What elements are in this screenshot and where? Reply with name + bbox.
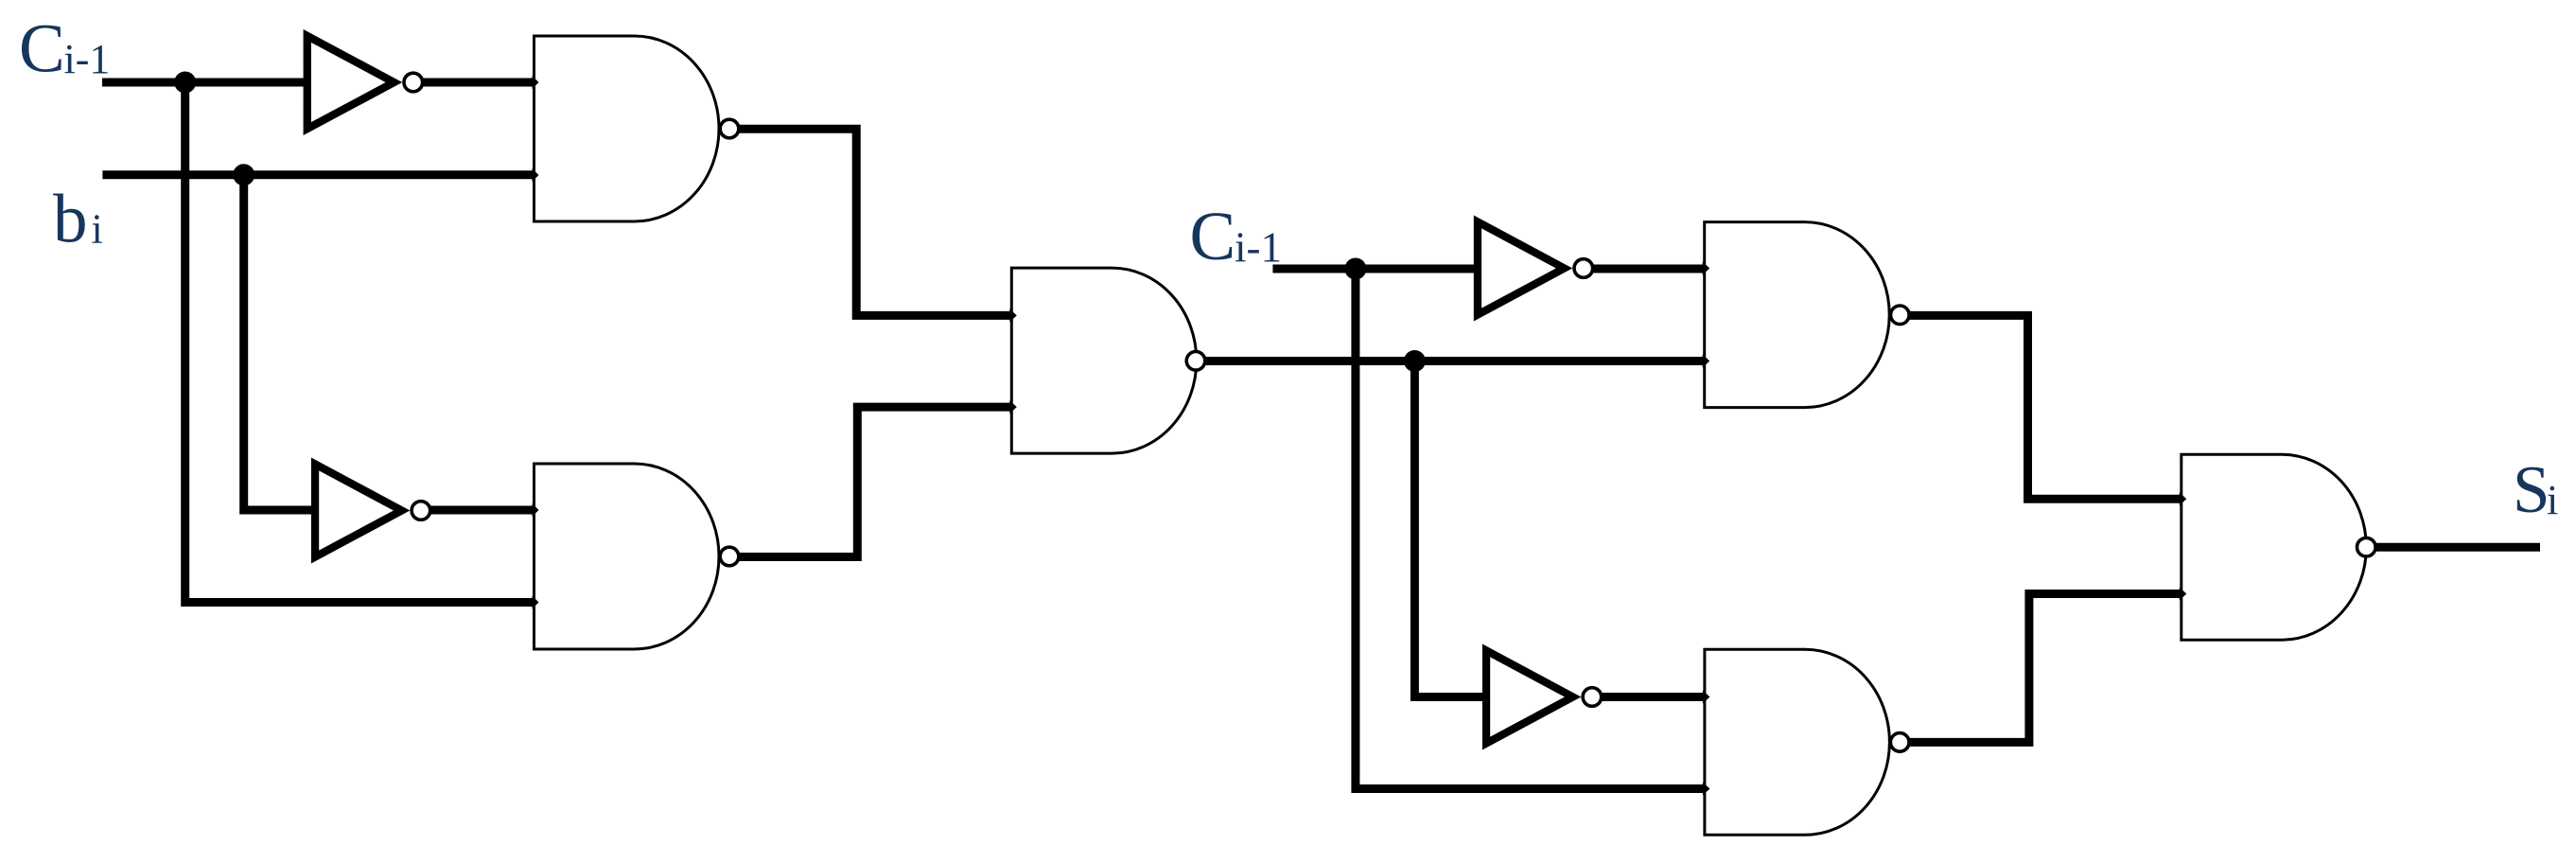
node Ci-1 input label (stage 1) bbox=[19, 10, 110, 87]
svg-text:i: i bbox=[2547, 477, 2558, 523]
nand-gate G2 bbox=[533, 464, 739, 649]
nand-gate G1 bbox=[533, 36, 739, 221]
node Ci-1 input label (stage 2) bbox=[1190, 198, 1283, 274]
inverter U1 bbox=[304, 29, 423, 135]
wire bi to NAND G1 bottom input bbox=[102, 170, 535, 179]
nand-gate G4 bbox=[1703, 222, 1909, 408]
svg-text:b: b bbox=[53, 181, 88, 257]
wire NAND G4 output to NAND G5 top input bbox=[1900, 315, 2182, 499]
inverter U4 bbox=[1482, 644, 1602, 750]
svg-text:i-1: i-1 bbox=[1235, 224, 1282, 272]
inverter U3 bbox=[1474, 216, 1593, 322]
wire inverter U4 output to NAND G6 top input bbox=[1592, 693, 1706, 701]
nand-gate G6 bbox=[1703, 649, 1909, 835]
wire NAND G1 output to NAND G3 top input bbox=[728, 129, 1013, 315]
wire Ci-1 to inverter U1 input bbox=[102, 79, 304, 87]
node junction on G3 output bbox=[1404, 350, 1426, 372]
nand-gate G5 bbox=[2180, 454, 2375, 640]
wire Ci-1 (stage 2) drop to NAND G6 bottom input bbox=[1356, 269, 1706, 789]
wire NAND G2 output to NAND G3 bottom input bbox=[728, 407, 1013, 556]
wire NAND G5 output to Si bbox=[2366, 543, 2540, 552]
node junction on bi bbox=[233, 164, 254, 185]
node junction on Ci-1 (stage 2) bbox=[1344, 258, 1366, 280]
svg-text:i-1: i-1 bbox=[64, 36, 111, 82]
svg-text:S: S bbox=[2513, 453, 2550, 527]
node bi input label bbox=[53, 181, 103, 257]
wire inverter U3 output to NAND G4 top input bbox=[1584, 265, 1706, 273]
svg-text:C: C bbox=[19, 10, 65, 87]
node Si output label bbox=[2513, 453, 2558, 527]
nand-gate G3 bbox=[1009, 268, 1204, 453]
node junction on Ci-1 bbox=[174, 72, 196, 94]
wire NAND G3 output drop to inverter U4 input bbox=[1414, 361, 1483, 697]
svg-text:i: i bbox=[92, 206, 103, 253]
wire bi drop to inverter U2 input bbox=[244, 175, 312, 510]
wire inverter U1 output to NAND G1 top input bbox=[413, 79, 535, 87]
wire NAND G3 output to NAND G4 bottom input bbox=[1196, 357, 1706, 365]
wire inverter U2 output to NAND G2 top input bbox=[421, 506, 535, 515]
wire Ci-1 (stage 2) to inverter U3 input bbox=[1272, 265, 1475, 273]
wire Ci-1 drop to NAND G2 bottom input bbox=[185, 82, 535, 603]
inverter U2 bbox=[311, 458, 430, 564]
wire NAND G6 output to NAND G5 bottom input bbox=[1900, 594, 2182, 743]
svg-text:C: C bbox=[1190, 198, 1236, 274]
